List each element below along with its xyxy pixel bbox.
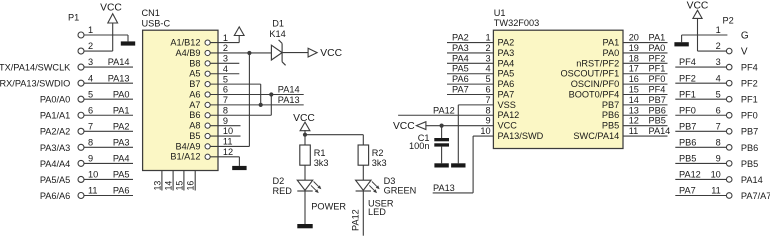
svg-text:12: 12	[629, 116, 639, 126]
ground bar at CN1 pin 12	[232, 166, 246, 170]
svg-text:100n: 100n	[409, 141, 429, 151]
U1 pin 9 VCC (left)	[485, 116, 517, 131]
svg-text:P2: P2	[723, 15, 734, 25]
svg-text:PA0/A0: PA0/A0	[40, 95, 70, 105]
CN1 pin 5 B7	[189, 74, 228, 89]
P1 pin 4 net PA13	[0, 73, 133, 88]
U1 pin 6 PA7 (left)	[485, 85, 514, 100]
svg-text:TW32F003: TW32F003	[494, 18, 539, 28]
svg-text:15: 15	[629, 85, 639, 95]
svg-text:PA13: PA13	[433, 183, 455, 193]
U1 pin 4 PA5 (left)	[485, 64, 514, 79]
svg-text:9: 9	[223, 116, 228, 126]
U1 pin 16 OSCIN/PF0 (right)	[571, 74, 639, 89]
svg-text:10: 10	[223, 126, 233, 136]
ground bar at C1	[434, 163, 448, 167]
P1 pin 1	[78, 25, 93, 38]
power symbol VCC right of D1	[308, 48, 343, 59]
wire D3 net PA12 stub	[362, 191, 364, 236]
svg-text:PA3: PA3	[113, 137, 130, 147]
wire U1 pin 1 net PA2	[447, 33, 493, 43]
svg-text:PA2: PA2	[498, 38, 515, 48]
U1 pin 3 PA4 (left)	[485, 53, 514, 68]
svg-text:17: 17	[629, 64, 639, 74]
CN1 shield pin 14	[164, 171, 174, 191]
svg-text:B8: B8	[189, 58, 200, 68]
diode D1 label	[269, 18, 285, 39]
svg-text:2: 2	[223, 43, 228, 53]
svg-text:PA3: PA3	[452, 43, 469, 53]
svg-text:7: 7	[223, 95, 228, 105]
power symbol VCC above R1/R2	[293, 113, 315, 135]
svg-text:PA5: PA5	[498, 69, 515, 79]
P2 pin 5 net PF1 ext PF1	[675, 89, 757, 104]
U1 pin 11 SWC/PA14 (right)	[573, 126, 638, 141]
P1 pin 9 net PA4	[40, 154, 133, 169]
svg-text:2: 2	[88, 41, 93, 51]
wire P2 pin 2 to VCC	[698, 50, 727, 52]
svg-text:3k3: 3k3	[314, 158, 329, 168]
D3 emission arrows	[369, 182, 379, 194]
svg-text:3k3: 3k3	[372, 158, 387, 168]
svg-text:20: 20	[629, 33, 639, 43]
wire U1 pin 12 net PB5	[623, 116, 668, 126]
CN1 shield pin 16	[186, 171, 196, 191]
svg-text:PB7: PB7	[649, 95, 666, 105]
svg-text:19: 19	[629, 43, 639, 53]
wire U1 VSS to ground	[458, 105, 493, 163]
svg-text:PA5/A5: PA5/A5	[40, 175, 70, 185]
svg-text:3: 3	[716, 57, 721, 67]
connector CN1 USB-C body	[143, 30, 218, 170]
U1 pin 7 VSS (left)	[485, 95, 515, 110]
svg-text:PA14: PA14	[741, 175, 763, 185]
svg-text:4: 4	[223, 64, 228, 74]
U1 pin 19 PA0 (right)	[603, 43, 639, 58]
U1 pin 5 PA6 (left)	[485, 74, 514, 89]
wire VBUS vertical pin2 to pin11	[210, 53, 249, 146]
U1 pin 12 PB5 (right)	[602, 116, 639, 131]
svg-text:PA4: PA4	[498, 58, 515, 68]
svg-text:7: 7	[88, 121, 93, 131]
svg-text:CN1: CN1	[142, 8, 160, 18]
wire C1 to ground	[441, 147, 443, 164]
svg-text:USB-C: USB-C	[142, 19, 171, 29]
wire CN1 pin 6 (A6 D+) net PA14	[210, 94, 304, 96]
U1 pin 18 nRST/PF2 (right)	[576, 53, 639, 68]
svg-text:1: 1	[716, 25, 721, 35]
connector CN1 USB-C label	[142, 8, 171, 29]
U1 pin 8 PA12 (left)	[485, 105, 519, 120]
LED D3 label GREEN	[384, 176, 417, 195]
wire U1 pin 15 net PF4	[623, 85, 668, 95]
svg-text:PA5: PA5	[452, 64, 469, 74]
junction D- node	[259, 103, 263, 107]
U1 pin 2 PA3 (left)	[485, 43, 514, 58]
U1 pin 17 OSCOUT/PF1 (right)	[560, 64, 638, 79]
svg-text:4: 4	[485, 64, 490, 74]
junction VCC rail	[303, 133, 307, 137]
svg-text:POWER: POWER	[311, 202, 346, 212]
svg-text:VCC: VCC	[498, 121, 518, 131]
U1 pin 14 PB7 (right)	[602, 95, 639, 110]
svg-text:10: 10	[88, 170, 98, 180]
wire U1 pin 2 net PA3	[447, 43, 493, 53]
U1 pin 15 BOOT0/PF4 (right)	[569, 85, 639, 100]
svg-text:6: 6	[223, 85, 228, 95]
svg-text:PA0: PA0	[113, 89, 130, 99]
wire U1 pin 13 net PB6	[623, 105, 668, 115]
svg-text:PA0: PA0	[603, 48, 620, 58]
ground bar at P1 pin 1	[121, 41, 135, 45]
svg-text:TX/PA14/SWCLK: TX/PA14/SWCLK	[0, 63, 71, 73]
power arrow symbol at CN1 pin 1	[234, 27, 244, 36]
P2 pin 8 net PB6 ext PB6	[675, 137, 758, 152]
junction VCC / C1	[440, 124, 444, 128]
wire CN1 pin 2 VBUS to D1	[210, 52, 271, 54]
svg-text:13: 13	[152, 181, 162, 191]
svg-text:RED: RED	[273, 186, 293, 196]
P2 pin 2 ext V	[716, 41, 748, 57]
svg-text:6: 6	[88, 105, 93, 115]
svg-text:PB5: PB5	[649, 116, 666, 126]
svg-text:PA0: PA0	[649, 43, 666, 53]
svg-text:A8: A8	[189, 121, 200, 131]
P2 pin 6 net PF0 ext PF0	[675, 105, 757, 120]
svg-text:4: 4	[88, 73, 93, 83]
P1 pin 11 net PA6	[40, 186, 133, 201]
svg-text:PA14: PA14	[108, 57, 130, 67]
svg-text:3: 3	[223, 54, 228, 64]
svg-text:B6: B6	[189, 110, 200, 120]
svg-text:OSCOUT/PF1: OSCOUT/PF1	[560, 69, 619, 79]
svg-text:5: 5	[716, 89, 721, 99]
svg-text:9: 9	[716, 154, 721, 164]
svg-text:PA12: PA12	[679, 170, 701, 180]
wire U1 pin 14 net PB7	[623, 95, 668, 105]
svg-text:PA1: PA1	[113, 105, 130, 115]
wire C1 top	[441, 126, 443, 138]
svg-text:PB5: PB5	[602, 121, 619, 131]
svg-text:PF4: PF4	[741, 63, 758, 73]
svg-text:VSS: VSS	[498, 100, 516, 110]
svg-text:VCC: VCC	[100, 2, 122, 13]
svg-text:V: V	[741, 46, 748, 57]
CN1 pin 4 A5	[189, 64, 228, 79]
CN1 pin 12 B1/A12	[170, 147, 233, 162]
resistor R2	[358, 145, 369, 165]
svg-text:PB5: PB5	[679, 154, 696, 164]
ground bar below D2	[297, 224, 312, 228]
LED D2 label RED	[273, 176, 293, 196]
svg-text:PA7/A7: PA7/A7	[741, 191, 770, 201]
wire CN1 pin 7 (A7 D-) net PA13	[210, 104, 304, 106]
svg-text:SWC/PA14: SWC/PA14	[573, 131, 619, 141]
svg-text:9: 9	[88, 154, 93, 164]
svg-text:PA2: PA2	[452, 33, 469, 43]
CN1 pin 1 A1/B12	[170, 33, 228, 48]
svg-text:G: G	[741, 30, 749, 41]
svg-text:PA6/A6: PA6/A6	[40, 191, 70, 201]
P1 pin 5 net PA0	[40, 89, 133, 104]
wire U1 pin 5 net PA6	[447, 74, 493, 84]
wire U1 pin 10 net PA13	[433, 136, 494, 193]
U1 pin 1 PA2 (left)	[485, 33, 514, 48]
svg-text:PA6: PA6	[452, 74, 469, 84]
svg-text:A5: A5	[189, 69, 200, 79]
svg-text:11: 11	[711, 186, 721, 196]
P2 pin 4 net PF2 ext PF2	[675, 73, 757, 88]
svg-text:8: 8	[223, 105, 228, 115]
svg-text:PA13: PA13	[278, 95, 300, 105]
svg-text:PA2: PA2	[113, 121, 130, 131]
svg-text:PA4: PA4	[113, 154, 130, 164]
CN1 shield pin 13	[152, 171, 162, 191]
svg-text:PF1: PF1	[679, 89, 696, 99]
svg-text:PF0: PF0	[679, 105, 696, 115]
svg-text:7: 7	[485, 95, 490, 105]
resistor R1	[300, 145, 311, 165]
svg-text:PA7: PA7	[679, 186, 696, 196]
junction D+ node	[269, 92, 273, 96]
svg-text:R1: R1	[314, 148, 326, 158]
svg-text:B1/A12: B1/A12	[170, 152, 200, 162]
svg-text:PF0: PF0	[649, 74, 666, 84]
svg-text:PB7: PB7	[741, 127, 758, 137]
svg-text:11: 11	[629, 126, 639, 136]
P1 pin 6 net PA1	[40, 105, 133, 120]
CN1 shield pin 15	[174, 171, 184, 191]
LED D2	[297, 180, 321, 193]
wire U1 pin 11 net PA14	[623, 126, 670, 136]
svg-text:D2: D2	[273, 176, 285, 186]
svg-text:PA12: PA12	[433, 105, 455, 115]
svg-text:10: 10	[711, 170, 721, 180]
svg-text:1: 1	[485, 33, 490, 43]
ground bar at P2 pin 1	[674, 42, 688, 46]
svg-text:7: 7	[716, 121, 721, 131]
P2 pin 1 ext G	[716, 25, 749, 41]
CN1 pin 7 A7	[189, 95, 228, 110]
svg-text:VCC: VCC	[393, 121, 415, 132]
svg-text:11: 11	[88, 186, 98, 196]
wire CN1 pin 4 stub	[210, 73, 239, 75]
wire U1 pin 6 net PA7	[447, 85, 493, 95]
svg-text:8: 8	[485, 105, 490, 115]
svg-text:10: 10	[480, 126, 490, 136]
wire VCC to U1 pin 9	[426, 125, 494, 127]
svg-text:D1: D1	[272, 18, 284, 28]
svg-text:14: 14	[629, 95, 639, 105]
svg-text:PA14: PA14	[649, 126, 671, 136]
svg-text:1: 1	[223, 33, 228, 43]
svg-text:PA7: PA7	[498, 89, 515, 99]
svg-text:PB6: PB6	[602, 110, 619, 120]
CN1 pin 10 B5	[189, 126, 233, 141]
svg-text:A6: A6	[189, 89, 200, 99]
svg-text:PF4: PF4	[679, 57, 696, 67]
svg-text:14: 14	[164, 181, 174, 191]
wire U1 pin 16 net PF0	[623, 74, 668, 84]
svg-text:PA3: PA3	[498, 48, 515, 58]
svg-text:12: 12	[223, 147, 233, 157]
svg-text:A4/B9: A4/B9	[175, 48, 200, 58]
svg-text:3: 3	[485, 53, 490, 63]
wire U1 pin 3 net PA4	[447, 53, 493, 63]
svg-text:PA12: PA12	[350, 209, 360, 231]
CN1 pin 3 B8	[189, 54, 228, 69]
svg-text:PB7: PB7	[602, 100, 619, 110]
power symbol VCC above P2	[687, 1, 709, 51]
svg-text:PA4/A4: PA4/A4	[40, 159, 70, 169]
svg-text:OSCIN/PF0: OSCIN/PF0	[571, 79, 620, 89]
svg-text:A1/B12: A1/B12	[170, 38, 200, 48]
svg-text:PF2: PF2	[741, 79, 758, 89]
svg-text:PA14: PA14	[278, 85, 300, 95]
svg-text:9: 9	[485, 116, 490, 126]
svg-text:3: 3	[88, 57, 93, 67]
CN1 pin 9 A8	[189, 116, 228, 131]
svg-text:PA3/A3: PA3/A3	[40, 143, 70, 153]
svg-text:PA1: PA1	[603, 38, 620, 48]
junction VBUS node	[247, 51, 251, 55]
label USER LED	[368, 198, 394, 217]
svg-text:16: 16	[186, 181, 196, 191]
svg-text:PA12: PA12	[498, 110, 520, 120]
svg-text:PF2: PF2	[679, 73, 696, 83]
wire CN1 pin 12 to ground	[210, 157, 239, 166]
wire CN1 pin 1 (GND) to arrow symbol	[210, 35, 239, 43]
svg-text:PF1: PF1	[649, 64, 666, 74]
svg-text:4: 4	[716, 73, 721, 83]
CN1 pin 6 A6	[189, 85, 228, 100]
wire P1 pin 1 to ground	[84, 35, 128, 41]
wire CN1 pin 3 stub	[210, 62, 239, 64]
wire CN1 pin 9 stub	[210, 125, 240, 127]
svg-text:GREEN: GREEN	[384, 186, 417, 196]
IC U1 body	[493, 30, 623, 148]
svg-text:PF2: PF2	[649, 53, 666, 63]
svg-text:PB6: PB6	[741, 143, 758, 153]
svg-text:6: 6	[716, 105, 721, 115]
CN1 pin 8 B6	[189, 105, 228, 120]
svg-text:16: 16	[629, 74, 639, 84]
power symbol VCC at U1 pin 9	[393, 121, 426, 132]
P2 pin 3 net PF4 ext PF4	[675, 57, 757, 72]
svg-text:PA5: PA5	[113, 170, 130, 180]
P2 pin 7 net PB7 ext PB7	[675, 121, 758, 136]
wire VCC to R1	[304, 135, 306, 145]
wire CN1 pin 5 (B7 D-) to pin 7	[210, 84, 261, 105]
wire P1 pin 2 to VCC	[84, 50, 113, 52]
P2 pin 11 net PA7 ext PA7/A7	[675, 186, 770, 201]
svg-text:13: 13	[629, 105, 639, 115]
svg-text:8: 8	[716, 137, 721, 147]
wire CN1 pin 10 stub	[210, 135, 240, 137]
power symbol VCC above P1	[100, 2, 122, 51]
value label R2 3k3	[372, 148, 387, 168]
wire D+ vertical pin6 to pin8	[210, 95, 271, 116]
svg-text:PA6: PA6	[113, 186, 130, 196]
svg-text:PA1: PA1	[649, 33, 666, 43]
value label C1 100n	[409, 133, 429, 151]
svg-text:1: 1	[88, 25, 93, 35]
svg-text:PA4: PA4	[452, 53, 469, 63]
svg-text:P1: P1	[68, 13, 79, 23]
svg-text:R2: R2	[372, 148, 384, 158]
P2 pin 9 net PB5 ext PB5	[675, 154, 758, 169]
wire R2 to D3	[362, 165, 364, 180]
svg-text:PA2/A2: PA2/A2	[40, 127, 70, 137]
svg-text:K14: K14	[269, 29, 285, 39]
svg-text:18: 18	[629, 53, 639, 63]
wire U1 pin 17 net PF1	[623, 64, 668, 74]
svg-text:PA7: PA7	[452, 85, 469, 95]
svg-text:LED: LED	[368, 207, 386, 217]
svg-text:RX/PA13/SWDIO: RX/PA13/SWDIO	[0, 79, 70, 89]
LED D3	[356, 180, 380, 193]
wire D1 cathode to VCC arrow	[282, 52, 308, 54]
U1 pin 20 PA1 (right)	[603, 33, 639, 48]
D2 emission arrows	[311, 182, 321, 194]
wire U1 pin 18 net PF2	[623, 53, 668, 63]
P1 pin 3 net PA14	[0, 57, 133, 72]
svg-text:VCC: VCC	[293, 113, 315, 124]
wire U1 pin 8 net PA12	[398, 105, 493, 115]
P1 pin 2	[78, 41, 93, 54]
value label R1 3k3	[314, 148, 329, 168]
diode D1	[271, 40, 285, 65]
svg-text:6: 6	[485, 85, 490, 95]
CN1 pin 2 A4/B9	[175, 43, 228, 58]
svg-text:PA13/SWD: PA13/SWD	[498, 131, 544, 141]
wire D2 to ground	[304, 191, 306, 224]
P1 pin 8 net PA3	[40, 137, 133, 152]
svg-text:nRST/PF2: nRST/PF2	[576, 58, 619, 68]
svg-text:PB5: PB5	[741, 159, 758, 169]
svg-text:BOOT0/PF4: BOOT0/PF4	[569, 89, 620, 99]
svg-text:PA13: PA13	[108, 73, 130, 83]
IC U1 label TW32F003	[494, 8, 539, 28]
svg-text:PF1: PF1	[741, 95, 758, 105]
svg-text:11: 11	[223, 137, 233, 147]
U1 pin 10 PA13/SWD (left)	[480, 126, 543, 141]
wire U1 pin 4 net PA5	[447, 64, 493, 74]
svg-text:5: 5	[88, 89, 93, 99]
svg-text:U1: U1	[494, 8, 506, 18]
P1 pin 10 net PA5	[40, 170, 133, 185]
svg-text:PF0: PF0	[741, 111, 758, 121]
svg-text:PA1/A1: PA1/A1	[40, 111, 70, 121]
svg-text:PB7: PB7	[679, 121, 696, 131]
svg-text:B7: B7	[189, 79, 200, 89]
svg-text:5: 5	[223, 74, 228, 84]
wire VCC rail to R2	[305, 135, 363, 145]
ground bar at U1 VSS	[451, 163, 465, 167]
U1 pin 13 PB6 (right)	[602, 105, 639, 120]
svg-text:2: 2	[716, 41, 721, 51]
P1 pin 7 net PA2	[40, 121, 133, 136]
svg-text:VCC: VCC	[320, 48, 342, 59]
wire U1 pin 20 net PA1	[623, 33, 668, 43]
svg-text:8: 8	[88, 137, 93, 147]
wire P2 pin 1 to ground	[682, 35, 728, 42]
svg-text:B4/A9: B4/A9	[175, 141, 200, 151]
svg-text:15: 15	[174, 181, 184, 191]
svg-text:PF4: PF4	[649, 85, 666, 95]
svg-text:PB6: PB6	[679, 137, 696, 147]
wire U1 pin 19 net PA0	[623, 43, 668, 53]
